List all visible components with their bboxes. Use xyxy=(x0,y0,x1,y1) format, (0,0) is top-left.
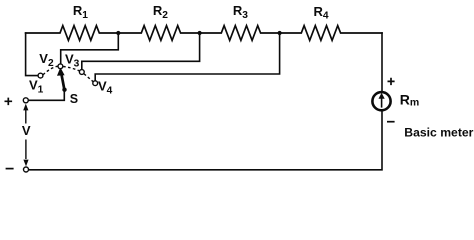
svg-text:Basic meter: Basic meter xyxy=(404,126,473,140)
svg-text:V: V xyxy=(22,123,31,138)
svg-text:S: S xyxy=(70,92,78,106)
